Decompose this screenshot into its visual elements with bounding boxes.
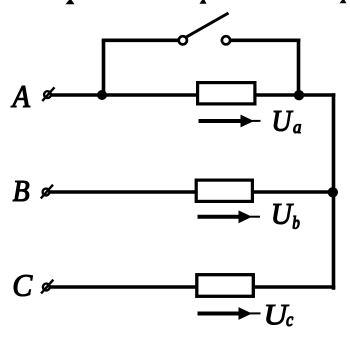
terminal A (circle with slash) [42,87,54,101]
switch blade (open) [186,13,229,37]
wire: phase A horizontal [52,93,336,97]
wire: phase C horizontal [50,285,335,289]
label Ub [274,204,294,224]
label Uc [266,305,289,325]
resistor (phase C load) [197,275,254,297]
cut-off text foot 1 (top edge) [66,0,75,4]
label B [13,181,29,201]
wire: switch loop left vertical [102,40,106,95]
label C [14,275,32,296]
voltage arrow Uc [198,307,261,320]
node: junction A-switch left [97,90,107,100]
label Ua subscript a [294,124,301,133]
switch right contact circle [222,36,230,44]
wire: switch loop top-right segment [230,38,300,42]
cut-off text foot 3 (top edge) [340,0,347,3]
wire: right bus vertical [332,93,336,290]
switch left contact circle [179,36,187,44]
label Ub subscript b [293,216,299,229]
label Uc subscript c [287,317,293,326]
wire: phase B horizontal [50,190,334,194]
terminal C (circle with slash) [41,280,53,294]
node: junction B-bus [328,187,338,197]
voltage arrow Ua [199,115,261,128]
wire: switch loop right vertical [297,39,301,96]
resistor (phase A load) [198,83,255,104]
label A [11,86,30,107]
label Ua [274,111,293,131]
terminal B (circle with slash) [41,185,53,199]
wire: switch loop top-left segment [102,38,179,42]
voltage arrow Ub [198,210,261,223]
node: junction A-switch right [294,90,304,100]
cut-off text foot 2 (top edge) [200,0,207,4]
resistor (phase B load) [196,180,252,201]
